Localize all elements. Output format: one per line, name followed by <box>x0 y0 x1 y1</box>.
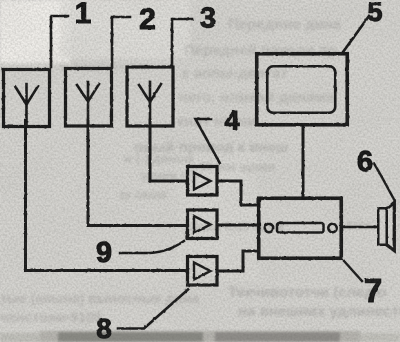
leader line to label 8 <box>118 290 188 329</box>
amplifier triangle 8 <box>194 263 211 280</box>
antenna symbol 1 <box>16 84 39 126</box>
amplifier box 8 (bottom) <box>188 257 218 286</box>
wire: antenna 3 mast down and across to amplifier 4 <box>150 120 186 181</box>
display screen <box>267 66 335 113</box>
radio unit left knob <box>265 224 273 232</box>
radio unit right knob <box>328 224 336 232</box>
antenna symbol 3 <box>139 82 161 125</box>
radio unit cassette slot <box>277 223 324 233</box>
wire: antenna 2 mast down and across to amplifier 9 <box>88 120 186 226</box>
amplifier triangle 9 <box>194 216 211 233</box>
wire: radio unit 7 to speaker 6 <box>343 226 377 229</box>
leader line to label 2 <box>112 17 130 67</box>
leader line to label 4 <box>196 119 221 164</box>
wire: amplifier 4 output to radio unit 7 <box>219 181 259 205</box>
leader line to label 7 <box>344 261 362 281</box>
leader line to label 9 <box>120 241 184 253</box>
amplifier box 4 (top) <box>188 167 218 196</box>
amplifier box 9 (middle) <box>188 210 218 239</box>
leader line to label 3 <box>172 19 192 66</box>
speaker 6 driver <box>378 208 387 245</box>
speaker 6 cone <box>388 203 395 251</box>
antenna box 3 <box>127 67 173 126</box>
wire: amplifier 8 output to radio unit 7 <box>219 251 259 271</box>
antenna box 1 <box>4 70 50 127</box>
wire: radio unit 7 to display 5 <box>302 127 305 196</box>
antenna box 2 <box>66 69 112 127</box>
radio unit box 7 <box>259 198 342 258</box>
amplifier triangle 4 <box>194 173 211 190</box>
antenna symbol 2 <box>77 82 99 125</box>
wire: antenna 1 mast down and across to amplifier 8 <box>26 120 187 271</box>
display box 5 <box>257 54 348 125</box>
wire: amplifier 9 output to radio unit 7 <box>219 224 259 227</box>
leader line to label 6 <box>374 164 394 200</box>
leader line to label 1 <box>51 16 68 67</box>
leader line to label 5 <box>343 16 369 52</box>
